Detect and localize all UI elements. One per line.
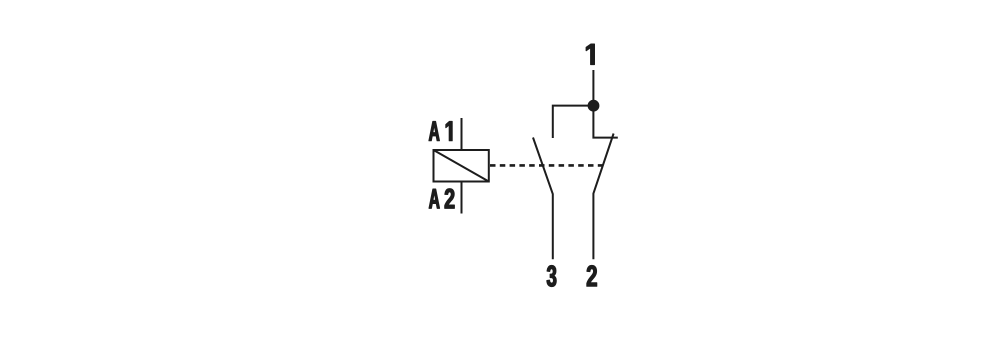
label A2 glyph 2 — [445, 189, 455, 209]
contact blade to terminal 2 — [593, 134, 613, 260]
label terminal 2 — [587, 265, 597, 286]
wire junction to left fixed contact — [553, 106, 594, 138]
label A1 glyph 1 — [446, 121, 452, 140]
wire A2 — [461, 182, 463, 214]
label terminal 3 — [547, 265, 556, 286]
label A2 glyph A — [429, 189, 439, 208]
label terminal 1 — [586, 44, 594, 64]
junction node — [588, 100, 600, 112]
wire junction to right fixed contact — [593, 106, 617, 138]
mechanical linkage (dashed) — [490, 164, 603, 167]
relay coil K1 — [434, 150, 489, 182]
wire terminal 1 — [592, 70, 594, 106]
wire A1 — [461, 118, 463, 150]
label A1 glyph A — [429, 121, 439, 140]
contact blade to terminal 3 — [533, 138, 553, 260]
